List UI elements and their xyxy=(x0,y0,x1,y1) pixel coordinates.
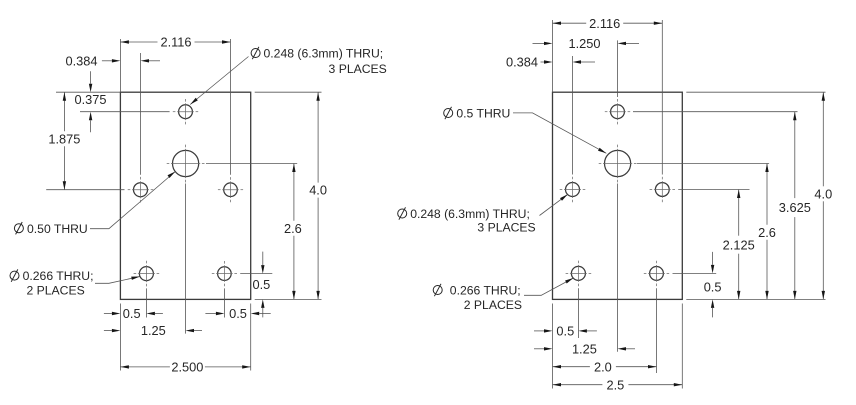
svg-text:3 PLACES: 3 PLACES xyxy=(329,62,387,76)
svg-text:1.875: 1.875 xyxy=(48,131,80,146)
svg-text:0.5: 0.5 xyxy=(556,324,574,339)
svg-text:0.5: 0.5 xyxy=(704,279,722,294)
svg-text:2.116: 2.116 xyxy=(589,16,620,31)
svg-text:0.266 THRU;: 0.266 THRU; xyxy=(23,269,94,283)
svg-text:0.248 (6.3mm) THRU;: 0.248 (6.3mm) THRU; xyxy=(410,207,530,221)
svg-text:0.248 (6.3mm) THRU;: 0.248 (6.3mm) THRU; xyxy=(264,47,384,61)
svg-text:2 PLACES: 2 PLACES xyxy=(464,298,522,312)
svg-text:2.0: 2.0 xyxy=(594,359,612,374)
svg-text:2.6: 2.6 xyxy=(284,221,302,236)
svg-text:4.0: 4.0 xyxy=(309,183,327,198)
svg-text:2.6: 2.6 xyxy=(758,225,776,240)
svg-text:0.384: 0.384 xyxy=(506,55,538,70)
svg-text:0.384: 0.384 xyxy=(65,53,97,68)
svg-text:0.5: 0.5 xyxy=(123,306,141,321)
svg-text:2.5: 2.5 xyxy=(607,377,625,392)
svg-text:1.250: 1.250 xyxy=(568,36,600,51)
svg-text:0.5: 0.5 xyxy=(229,306,247,321)
svg-text:2.116: 2.116 xyxy=(160,35,191,50)
svg-text:0.266 THRU;: 0.266 THRU; xyxy=(450,284,521,298)
svg-text:3.625: 3.625 xyxy=(779,200,811,215)
svg-text:1.25: 1.25 xyxy=(141,323,166,338)
svg-text:2 PLACES: 2 PLACES xyxy=(26,284,84,298)
svg-text:0.5 THRU: 0.5 THRU xyxy=(456,107,510,121)
svg-text:0.5: 0.5 xyxy=(253,277,271,292)
svg-text:3 PLACES: 3 PLACES xyxy=(477,220,535,234)
svg-text:2.500: 2.500 xyxy=(171,360,203,375)
svg-text:4.0: 4.0 xyxy=(814,186,832,201)
svg-text:0.50 THRU: 0.50 THRU xyxy=(27,222,88,236)
svg-text:0.375: 0.375 xyxy=(74,92,106,107)
svg-text:2.125: 2.125 xyxy=(723,237,755,252)
svg-text:1.25: 1.25 xyxy=(572,341,597,356)
